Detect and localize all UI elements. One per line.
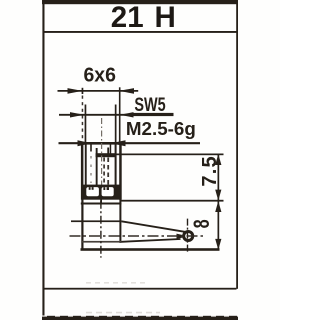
arrow 7.5 down <box>215 190 221 201</box>
thread stub left <box>90 144 92 152</box>
card right border <box>236 0 238 289</box>
arrow M2.5 left <box>78 140 92 146</box>
footer line <box>43 288 237 290</box>
dimension label 6x6 <box>83 64 115 87</box>
SW5 underline thick <box>131 113 174 116</box>
show-through ghost dashes <box>86 282 148 284</box>
svg-text:H: H <box>155 1 176 34</box>
inner dashed line B <box>107 148 109 154</box>
extension line left outer <box>82 88 84 94</box>
hex socket wall left <box>85 143 87 188</box>
hex socket wall right <box>115 143 117 188</box>
inner dashed line A <box>103 158 105 185</box>
arrow 6x6 right <box>119 88 134 94</box>
thread dimension line / body top edge <box>59 142 201 144</box>
card left border <box>42 0 44 318</box>
base line (8 bottom extension) <box>81 248 220 251</box>
socket bottom bridge <box>96 153 117 157</box>
card top bar <box>42 0 238 4</box>
vertical dimension line <box>218 154 220 251</box>
lower view left wall <box>81 196 83 250</box>
arrow SW5 right <box>120 112 134 117</box>
lower view right wall <box>119 196 121 243</box>
dimension line 6x6 <box>58 90 139 92</box>
lug taper bottom <box>121 239 180 242</box>
lug top line inside body <box>71 220 120 222</box>
core hole line left <box>96 148 98 185</box>
svg-text:8: 8 <box>190 219 215 228</box>
extension line right hex <box>115 105 117 144</box>
section window right <box>102 187 114 196</box>
arrow M2.5 right <box>111 140 126 146</box>
svg-text:7.5: 7.5 <box>199 155 221 186</box>
svg-text:M2.5-6g: M2.5-6g <box>126 118 196 139</box>
extension line 7.5 top <box>111 154 224 156</box>
section window left <box>86 187 99 196</box>
contact section dark zone <box>83 185 121 200</box>
svg-text:SW5: SW5 <box>134 93 166 116</box>
svg-text:21: 21 <box>111 1 144 34</box>
arrow 8 up <box>215 201 221 212</box>
card bottom bar <box>42 316 238 320</box>
extension line left hex <box>85 105 87 144</box>
window nubs <box>89 187 91 190</box>
title 21 H <box>111 1 176 34</box>
body wall left <box>81 143 84 200</box>
hole vertical center line <box>187 219 189 253</box>
lower view vertical center line <box>100 201 102 258</box>
lug wedge <box>177 234 183 239</box>
arrow SW5 left <box>70 112 84 117</box>
center line upper view <box>101 118 103 200</box>
arrow 8 down <box>215 239 221 250</box>
extension line mid (7.5 bottom / 8 top) <box>121 200 224 202</box>
solder lug ring <box>184 231 193 240</box>
arrow 6x6 left <box>68 88 83 94</box>
dimension line SW5 <box>59 114 171 116</box>
title separator <box>43 31 237 33</box>
thread stub right <box>110 144 112 154</box>
lower view bottom edge <box>81 241 121 243</box>
body wall right <box>119 143 122 200</box>
lower view top edge <box>81 203 122 205</box>
svg-text:6x6: 6x6 <box>83 64 115 87</box>
hole horizontal center line <box>70 235 204 237</box>
lug taper top <box>121 221 185 232</box>
arrow 7.5 up <box>215 154 221 165</box>
gap tick center <box>100 200 102 204</box>
body top edge thick <box>81 142 122 145</box>
thread dots left <box>90 156 92 183</box>
extension line right outer <box>119 87 121 143</box>
